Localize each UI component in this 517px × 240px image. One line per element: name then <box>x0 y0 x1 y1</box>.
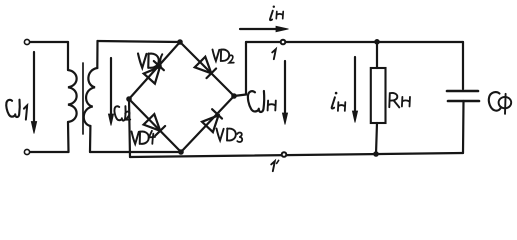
wire <box>30 151 69 153</box>
node bridge bottom <box>179 150 184 155</box>
label VD3 <box>217 129 243 143</box>
wire <box>376 123 377 154</box>
wire bridge right corner jog <box>234 42 246 96</box>
voltage arrow U_n <box>282 61 287 125</box>
label U2 <box>114 106 130 120</box>
wire <box>67 122 70 152</box>
label i_n load <box>332 92 346 111</box>
label VD4 <box>132 131 155 144</box>
node R bottom <box>374 152 379 157</box>
label R_n <box>389 93 410 107</box>
node bridge right <box>232 94 237 99</box>
wire <box>30 41 68 43</box>
label 1 <box>272 49 276 59</box>
transformer primary winding <box>68 70 77 122</box>
wire <box>67 42 69 70</box>
label U1 <box>6 100 27 120</box>
diode VD3 <box>181 96 234 152</box>
current arrow i_n top <box>240 26 289 31</box>
voltage arrow U2 <box>108 58 113 126</box>
wire secondary top to bridge <box>98 41 181 42</box>
diode VD1 <box>129 42 180 99</box>
resistor R_n <box>371 68 386 123</box>
current arrow i_n load <box>352 57 357 123</box>
label U_n <box>248 91 264 112</box>
wire <box>376 42 378 68</box>
label C_f <box>489 92 511 114</box>
wire <box>462 101 465 153</box>
voltage arrow U1 <box>31 52 36 134</box>
wire bridge left corner down <box>129 99 130 157</box>
transformer core <box>82 63 84 134</box>
node bridge left <box>127 97 132 102</box>
label VD1 <box>138 54 162 68</box>
wire <box>462 42 464 89</box>
label VD2 <box>213 50 234 63</box>
wire <box>89 126 92 152</box>
capacitor C_f <box>447 91 479 101</box>
diode VD4 <box>129 99 181 152</box>
input terminal bottom <box>24 149 29 154</box>
node R top <box>375 39 380 44</box>
input terminal top <box>24 39 29 44</box>
wire secondary bottom to bridge <box>90 151 181 153</box>
diode VD2 <box>180 42 234 96</box>
label 1prime <box>271 160 278 171</box>
wire bottom rail <box>130 153 463 157</box>
terminal 1prime <box>282 152 287 157</box>
terminal 1 <box>281 40 286 45</box>
transformer secondary winding <box>84 68 98 126</box>
wire top rail <box>246 41 463 43</box>
node bridge top <box>178 40 183 45</box>
label i_n top <box>270 6 283 21</box>
wire <box>96 41 98 68</box>
